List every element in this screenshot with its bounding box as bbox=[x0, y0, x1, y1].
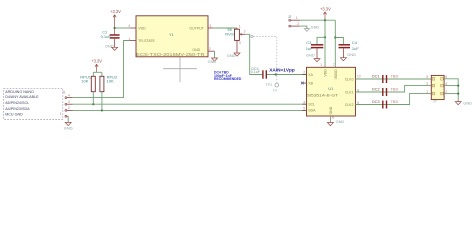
capacitor C3 1uF bbox=[306, 40, 324, 59]
wire C4 jog bbox=[335, 38, 343, 45]
svg-text:J2: J2 bbox=[288, 15, 292, 19]
wire CLK1 row bbox=[356, 86, 432, 92]
ground (pot) bbox=[227, 53, 240, 58]
potentiometer RV01 5K bbox=[225, 25, 246, 53]
svg-text:9: 9 bbox=[332, 116, 334, 120]
svg-text:A5/PIN24/SCL: A5/PIN24/SCL bbox=[5, 101, 29, 105]
power +3.3V (TCXO supply) bbox=[110, 9, 121, 35]
no-connect XB bbox=[301, 82, 304, 85]
svg-text:TBD: TBD bbox=[391, 100, 399, 104]
svg-text:2: 2 bbox=[209, 47, 211, 51]
svg-text:GND: GND bbox=[64, 125, 73, 130]
svg-text:CLK0: CLK0 bbox=[345, 77, 354, 81]
svg-text:4: 4 bbox=[303, 100, 305, 104]
wire Y1 GND pin drop bbox=[214, 51, 216, 58]
wire J2 pin2 to ground bbox=[300, 26, 307, 29]
capacitor C4 1uF bbox=[339, 40, 360, 58]
junction TP1 bbox=[275, 73, 277, 75]
svg-text:4: 4 bbox=[128, 24, 130, 28]
svg-text:MCU GND: MCU GND bbox=[5, 113, 23, 117]
anchor cross (footprint origin) bbox=[163, 57, 197, 82]
power +3.3V (U1 supply) bbox=[320, 6, 331, 20]
svg-text:TBD: TBD bbox=[391, 87, 399, 91]
wire J3 returns to ground bbox=[444, 79, 458, 102]
junction J3 pin2 bbox=[457, 93, 459, 95]
wire CLK2 row bbox=[356, 94, 432, 105]
capacitor C1 0.1uF bbox=[101, 29, 120, 47]
svg-text:4: 4 bbox=[68, 93, 70, 97]
svg-text:OUTPUT: OUTPUT bbox=[189, 26, 204, 30]
svg-text:D4/ANY AVAILABLE: D4/ANY AVAILABLE bbox=[5, 95, 39, 99]
svg-text:1: 1 bbox=[296, 16, 298, 20]
sheet block ARDUINO NANO (dashed box) bbox=[4, 88, 63, 119]
connector J3 (output header) bbox=[426, 75, 447, 103]
capacitor DC3 TBD bbox=[372, 100, 398, 109]
ground (C1) bbox=[105, 43, 118, 50]
wire D4 net to TR-STATE bbox=[73, 41, 131, 98]
junction VDD/C1 bbox=[114, 27, 116, 29]
svg-text:5: 5 bbox=[426, 75, 428, 79]
svg-text:GND: GND bbox=[336, 119, 345, 124]
wire C3 jog bbox=[317, 37, 325, 44]
svg-text:3: 3 bbox=[68, 100, 70, 104]
svg-text:TR-STATE: TR-STATE bbox=[138, 39, 155, 43]
svg-text:Si5351A-B-GT: Si5351A-B-GT bbox=[307, 93, 339, 97]
wire SCL bus bbox=[73, 103, 307, 105]
wire XAIN net bbox=[267, 74, 307, 76]
test point TP1 bbox=[265, 83, 278, 93]
svg-text:1: 1 bbox=[239, 25, 241, 29]
svg-text:CLK1: CLK1 bbox=[345, 90, 354, 94]
svg-text:C4: C4 bbox=[352, 40, 358, 45]
svg-text:10: 10 bbox=[357, 75, 361, 79]
svg-text:3: 3 bbox=[209, 24, 211, 28]
junction J3 pin4 bbox=[457, 85, 459, 87]
svg-text:7: 7 bbox=[333, 63, 335, 67]
capacitor DC4 0.1uF bbox=[251, 67, 266, 79]
IC U1 Si5351A-B-GT bbox=[302, 63, 360, 120]
wire VDD drop bbox=[324, 20, 326, 67]
wire pullup tee bbox=[93, 71, 102, 73]
resistor RPU2 10K bbox=[100, 75, 118, 111]
svg-text:1uF: 1uF bbox=[352, 46, 359, 51]
ground (C3) bbox=[306, 52, 320, 61]
wire wiper to DC4 bbox=[246, 34, 263, 74]
svg-text:GND: GND bbox=[306, 52, 315, 57]
svg-text:1uF: 1uF bbox=[306, 46, 313, 51]
ground (Y1 pin2) bbox=[208, 58, 218, 64]
svg-text:XA: XA bbox=[308, 73, 313, 77]
power +3.3V (pullups) bbox=[91, 59, 102, 73]
svg-text:2: 2 bbox=[303, 71, 305, 75]
capacitor DC2 TBD bbox=[372, 87, 398, 96]
svg-text:CLK2: CLK2 bbox=[345, 103, 354, 107]
capacitor DC1 TBD bbox=[372, 74, 398, 83]
connector J1 pins (to Arduino) bbox=[60, 90, 73, 117]
annotation DC4 note bbox=[214, 71, 242, 82]
ground (J3) bbox=[455, 100, 472, 105]
svg-text:GND: GND bbox=[329, 106, 333, 114]
wire U1 GND drop bbox=[329, 116, 331, 123]
svg-text:5: 5 bbox=[303, 107, 305, 111]
svg-text:ARDUINO NANO: ARDUINO NANO bbox=[5, 90, 34, 94]
svg-text:XAIN=1Vpp: XAIN=1Vpp bbox=[269, 68, 295, 73]
svg-text:3: 3 bbox=[239, 41, 241, 45]
wire 3.3V rail bbox=[300, 19, 335, 21]
svg-text:TP1: TP1 bbox=[265, 83, 272, 87]
svg-text:10K: 10K bbox=[107, 79, 114, 84]
svg-text:VDD: VDD bbox=[138, 26, 146, 30]
ground (MCU GND) bbox=[64, 122, 73, 130]
svg-text:GND: GND bbox=[311, 24, 320, 29]
svg-text:Y1: Y1 bbox=[169, 32, 175, 37]
svg-text:1: 1 bbox=[60, 112, 62, 116]
svg-text:+3.3V: +3.3V bbox=[110, 9, 121, 14]
ground (J2) bbox=[304, 24, 319, 31]
svg-text:GND: GND bbox=[208, 59, 217, 64]
wire VDD feed Y1 bbox=[115, 27, 130, 29]
svg-text:0.1uF: 0.1uF bbox=[251, 70, 261, 74]
svg-text:1: 1 bbox=[426, 90, 428, 94]
wire SDA bus bbox=[73, 109, 307, 111]
junction SDA pullup bbox=[101, 109, 103, 111]
resistor RPU1 10K bbox=[80, 75, 95, 105]
svg-text:J1: J1 bbox=[62, 90, 66, 94]
svg-text:GND: GND bbox=[347, 52, 356, 57]
svg-text:SDA: SDA bbox=[308, 109, 316, 113]
connector J2 (power) bbox=[288, 15, 300, 27]
svg-text:DC2: DC2 bbox=[372, 87, 380, 91]
svg-text:GND: GND bbox=[463, 100, 472, 105]
svg-text:ECS-TXO-2016MV-250-TR: ECS-TXO-2016MV-250-TR bbox=[136, 52, 204, 57]
svg-text:TBD: TBD bbox=[391, 74, 399, 78]
junction C3 tap bbox=[324, 36, 326, 38]
ground (U1) bbox=[327, 119, 344, 126]
svg-text:1: 1 bbox=[128, 37, 130, 41]
svg-text:2: 2 bbox=[297, 22, 299, 26]
test point dashed link bbox=[251, 35, 277, 83]
svg-text:VDDO: VDDO bbox=[334, 69, 338, 79]
svg-text:U1: U1 bbox=[328, 86, 334, 91]
svg-text:DC1: DC1 bbox=[372, 74, 380, 78]
wire MCU GND drop bbox=[67, 116, 69, 122]
svg-text:+3.3V: +3.3V bbox=[91, 59, 102, 64]
svg-text:A4/PIN23/SDA: A4/PIN23/SDA bbox=[5, 107, 30, 111]
wire OUTPUT to pot bbox=[214, 27, 237, 29]
svg-text:3: 3 bbox=[426, 82, 428, 86]
svg-text:DC3: DC3 bbox=[372, 100, 380, 104]
junction C4 tap bbox=[334, 36, 336, 38]
wire VDDO drop bbox=[334, 20, 336, 67]
svg-text:1V: 1V bbox=[273, 89, 278, 93]
wire CLK0 row bbox=[356, 78, 432, 80]
svg-text:VDD: VDD bbox=[324, 69, 328, 77]
svg-text:+3.3V: +3.3V bbox=[320, 6, 331, 11]
svg-text:2: 2 bbox=[68, 106, 70, 110]
svg-text:1: 1 bbox=[320, 63, 322, 67]
svg-text:SCL: SCL bbox=[308, 103, 315, 107]
svg-text:2: 2 bbox=[244, 29, 246, 33]
junction rail/+3.3V bbox=[324, 19, 326, 21]
oscillator Y1 ECS-TXO-2016MV-250-TR bbox=[128, 16, 214, 57]
svg-text:XB: XB bbox=[308, 81, 313, 85]
svg-text:RECOMMENDED: RECOMMENDED bbox=[214, 77, 242, 81]
svg-text:10K: 10K bbox=[81, 79, 88, 84]
ground (C4) bbox=[340, 52, 356, 61]
junction SCL pullup bbox=[92, 103, 94, 105]
